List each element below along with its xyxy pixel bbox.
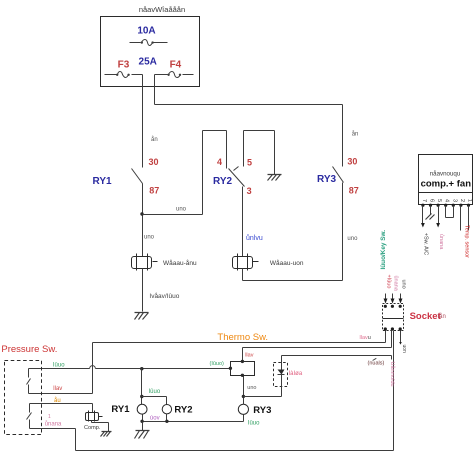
svg-text:Ivåav/Iûuo: Ivåav/Iûuo bbox=[149, 292, 179, 300]
svg-text:RY1: RY1 bbox=[111, 404, 130, 415]
svg-text:25A: 25A bbox=[139, 57, 157, 68]
wire to RY2 coil top bbox=[142, 397, 167, 405]
relay RY3 switch blade bbox=[333, 167, 344, 183]
node thermo top bbox=[241, 360, 244, 363]
control box comp.+fan outline bbox=[419, 155, 473, 205]
wire comp to ground bbox=[92, 421, 109, 432]
svg-text:RY1: RY1 bbox=[93, 176, 113, 187]
socket box bbox=[383, 304, 404, 331]
svg-text:Pressure Sw.: Pressure Sw. bbox=[1, 344, 57, 355]
svg-text:comp.+ fan: comp.+ fan bbox=[421, 179, 472, 190]
wire brown bottom return to socket bbox=[30, 429, 394, 451]
tiny annotation arrow bbox=[373, 358, 377, 360]
svg-text:u: u bbox=[368, 335, 371, 341]
svg-text:1: 1 bbox=[48, 414, 51, 420]
compressor clutch Comp symbol bbox=[86, 411, 103, 422]
svg-text:ån: ån bbox=[151, 136, 158, 143]
node RY3 coil top bbox=[242, 395, 245, 398]
svg-text:Iûuo: Iûuo bbox=[53, 363, 65, 369]
svg-text:Iûuo: Iûuo bbox=[248, 420, 260, 426]
relay RY1 switch blade bbox=[132, 169, 143, 184]
diode dashed box bbox=[274, 363, 288, 387]
svg-text:RY3: RY3 bbox=[317, 174, 337, 185]
fuse box (black fuse box) outline bbox=[101, 17, 200, 87]
svg-text:(Iûuo): (Iûuo) bbox=[210, 361, 225, 367]
svg-text:(nuals): (nuals) bbox=[368, 361, 385, 367]
wire line3 to diode bbox=[282, 356, 392, 360]
pin numbers 7-1 bbox=[421, 199, 473, 202]
wire orange to compressor clutch bbox=[30, 404, 93, 413]
svg-text:IàIøa: IàIøa bbox=[289, 371, 303, 377]
fuse F3 25A bbox=[105, 72, 143, 78]
ground G2 bbox=[268, 175, 282, 181]
node coil RY2 bottom bbox=[165, 420, 168, 423]
svg-text:3: 3 bbox=[451, 199, 457, 202]
wire socket right pin stub bbox=[400, 331, 402, 343]
ground G1 bbox=[135, 313, 149, 320]
wire green pressure sw to thermo sw bbox=[29, 368, 231, 370]
relay RY2 pin5 contact tick bbox=[234, 167, 239, 171]
thermo switch box bbox=[231, 362, 255, 376]
fuse F4 bbox=[155, 72, 194, 78]
svg-text:uon: uon bbox=[401, 345, 407, 354]
svg-text:Comp.: Comp. bbox=[84, 425, 101, 431]
wire pin1 temp sensor bbox=[468, 206, 470, 231]
svg-text:5: 5 bbox=[247, 158, 252, 168]
svg-text:10A: 10A bbox=[137, 26, 155, 37]
wire pin6 with hatch marks bbox=[430, 206, 432, 215]
wire pin7 +Sw A/C with arrow bbox=[422, 206, 424, 224]
wire to diode bottom bbox=[244, 396, 282, 398]
svg-text:uno: uno bbox=[247, 385, 256, 391]
svg-text:F3: F3 bbox=[118, 60, 130, 71]
svg-text:7: 7 bbox=[421, 199, 427, 202]
control box pin dots bbox=[421, 204, 470, 207]
svg-text:Uånmoldu: Uånmoldu bbox=[389, 362, 396, 387]
svg-text:Temp. sensor: Temp. sensor bbox=[464, 225, 470, 258]
svg-text:uno: uno bbox=[400, 280, 406, 289]
svg-text:+Iûuo: +Iûuo bbox=[385, 275, 391, 289]
wire RY2 pin5 to ground bbox=[244, 131, 275, 175]
wire fan-right bottom to RY3 87 bbox=[243, 183, 343, 281]
svg-text:F4: F4 bbox=[170, 60, 182, 71]
wire pin2 temp sensor bbox=[460, 206, 462, 231]
wire line1 down with hop over green wire, red to pressure sw bbox=[29, 343, 93, 394]
pressure switch 2 bbox=[27, 404, 32, 429]
svg-text:30: 30 bbox=[347, 157, 357, 167]
svg-text:úov: úov bbox=[150, 416, 160, 422]
svg-text:2: 2 bbox=[459, 199, 465, 202]
svg-text:1: 1 bbox=[467, 199, 473, 202]
node thermo left pin bbox=[229, 367, 232, 370]
wire pin5 with arrow bbox=[438, 206, 440, 224]
wire socket left pin line1 bbox=[93, 331, 386, 343]
svg-text:uno: uno bbox=[144, 235, 155, 241]
svg-text:Wåaau-ånu: Wåaau-ånu bbox=[163, 259, 197, 267]
svg-text:Iån: Iån bbox=[438, 313, 446, 320]
node RY1-87 junction bbox=[140, 212, 143, 215]
wire RY1 coil bottom to ground bbox=[142, 422, 144, 431]
svg-text:4: 4 bbox=[444, 199, 450, 202]
relay coil RY2 bbox=[162, 405, 171, 414]
motor fan-right symbol bbox=[233, 254, 259, 271]
wire RY3 coil top to thermo bottom bbox=[243, 376, 245, 405]
svg-text:ůnana: ůnana bbox=[438, 234, 445, 250]
svg-text:uno: uno bbox=[347, 236, 358, 242]
wire coil bottoms purple bbox=[143, 414, 244, 422]
diode D1 bbox=[281, 356, 283, 370]
wire green feed down to relay coils bbox=[141, 369, 143, 405]
svg-text:uno: uno bbox=[176, 207, 187, 213]
svg-text:RY3: RY3 bbox=[253, 405, 271, 416]
svg-text:ůnlvu: ůnlvu bbox=[246, 234, 263, 242]
svg-text:4: 4 bbox=[217, 157, 222, 167]
ground G4 bbox=[101, 432, 112, 437]
jumper pins 4-3 bbox=[446, 206, 454, 218]
wire RY2 pin3 blue down to fan-right bbox=[242, 187, 244, 257]
svg-text:Iûuo/Key Sw.: Iûuo/Key Sw. bbox=[380, 230, 387, 270]
svg-text:nåavWîaååån: nåavWîaååån bbox=[139, 5, 185, 14]
wire F3 output down to RY1 terminal 30 bbox=[142, 75, 144, 168]
svg-text:ån: ån bbox=[352, 131, 359, 138]
svg-text:3: 3 bbox=[247, 186, 252, 196]
node green junction bbox=[140, 367, 143, 370]
relay coil RY3 bbox=[238, 404, 248, 414]
svg-text:ůnana: ůnana bbox=[393, 276, 400, 292]
fuse 10A bbox=[130, 40, 168, 46]
wire white RY1-87 to RY2 pin4 bbox=[143, 131, 227, 215]
wire RY1 87 down to fan-left bbox=[142, 184, 144, 257]
svg-text:6: 6 bbox=[429, 199, 435, 202]
svg-text:30: 30 bbox=[149, 157, 159, 167]
svg-text:åu: åu bbox=[54, 397, 61, 404]
svg-text:llav: llav bbox=[245, 352, 254, 358]
svg-text:llav: llav bbox=[53, 386, 62, 392]
svg-text:nåavnouqu: nåavnouqu bbox=[430, 171, 461, 178]
pressure switch 1 bbox=[27, 369, 31, 394]
svg-text:87: 87 bbox=[349, 185, 359, 195]
svg-text:Wåaau-uon: Wåaau-uon bbox=[270, 259, 304, 267]
ground G3 bbox=[135, 431, 150, 439]
svg-text:87: 87 bbox=[149, 185, 159, 195]
pressure switch dashed box bbox=[5, 361, 42, 435]
wire thermo top from line2 bbox=[242, 348, 244, 362]
wire fan-left to ground bbox=[142, 269, 144, 312]
svg-text:5: 5 bbox=[436, 199, 442, 202]
wire socket middle pin line2 to thermo bbox=[243, 331, 392, 348]
relay RY2 switch blade bbox=[229, 169, 245, 187]
socket pin dots bbox=[384, 305, 402, 331]
svg-text:ůnana: ůnana bbox=[45, 420, 62, 427]
wire F4 output to RY3 terminal 30 bbox=[155, 75, 343, 167]
node coil feed split bbox=[140, 395, 143, 398]
svg-text:+Sw. A/C: +Sw. A/C bbox=[423, 233, 429, 255]
wire socket middle pin long vertical bbox=[393, 331, 395, 451]
svg-text:Iûuo: Iûuo bbox=[149, 389, 161, 395]
relay coil RY1 bbox=[137, 404, 147, 414]
node thermo bottom bbox=[241, 374, 244, 377]
wires into socket with arrows bbox=[386, 294, 401, 300]
svg-text:RY2: RY2 bbox=[213, 176, 233, 187]
motor fan-left symbol bbox=[132, 254, 158, 271]
node coil RY1 bottom bbox=[140, 420, 143, 423]
svg-text:RY2: RY2 bbox=[174, 404, 192, 415]
svg-text:Thermo Sw.: Thermo Sw. bbox=[217, 332, 268, 343]
